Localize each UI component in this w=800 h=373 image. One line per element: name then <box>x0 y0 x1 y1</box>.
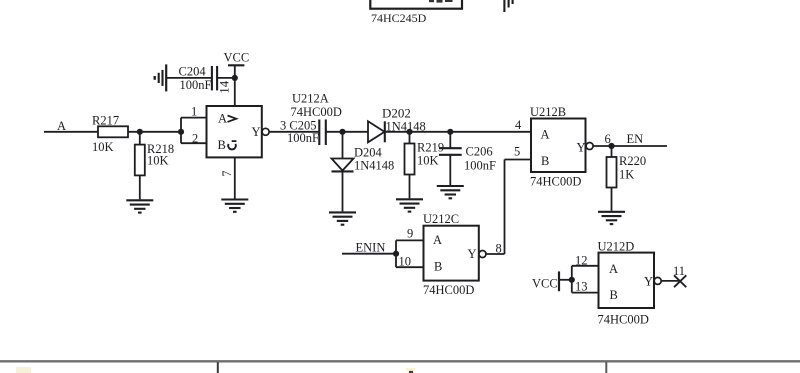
svg-text:100nF: 100nF <box>464 159 496 173</box>
svg-text:7: 7 <box>220 171 234 177</box>
svg-text:1K: 1K <box>619 168 634 182</box>
svg-text:R220: R220 <box>619 154 646 168</box>
svg-text:C206: C206 <box>466 145 493 159</box>
svg-text:10: 10 <box>399 255 412 269</box>
svg-text:12: 12 <box>575 254 588 268</box>
svg-text:B: B <box>434 260 442 274</box>
svg-text:2: 2 <box>192 132 198 146</box>
svg-text:Y: Y <box>577 141 586 155</box>
svg-text:A: A <box>218 112 227 126</box>
svg-text:EN: EN <box>627 132 644 146</box>
svg-text:D202: D202 <box>382 106 411 121</box>
svg-text:6: 6 <box>605 132 611 146</box>
svg-text:U212C: U212C <box>423 212 459 226</box>
svg-text:VCC: VCC <box>224 51 250 65</box>
svg-text:B: B <box>541 154 549 168</box>
svg-text:74HC00D: 74HC00D <box>598 313 649 327</box>
svg-text:14: 14 <box>216 80 231 94</box>
svg-text:B: B <box>218 138 226 152</box>
svg-text:Y: Y <box>252 125 261 139</box>
svg-text:R217: R217 <box>92 114 119 128</box>
svg-text:Y: Y <box>644 275 653 289</box>
svg-text:100nF: 100nF <box>180 78 212 92</box>
svg-text:U212D: U212D <box>598 240 635 254</box>
svg-text:Y: Y <box>468 247 477 261</box>
svg-text:100nF: 100nF <box>287 131 319 145</box>
svg-text:ENIN: ENIN <box>356 241 386 255</box>
svg-text:5: 5 <box>514 145 520 159</box>
svg-text:1: 1 <box>191 105 197 119</box>
svg-text:10K: 10K <box>147 154 169 168</box>
svg-text:U212A: U212A <box>292 92 329 106</box>
svg-text:VCC: VCC <box>532 277 558 291</box>
svg-text:74HC00D: 74HC00D <box>423 283 474 297</box>
svg-text:10K: 10K <box>417 154 439 168</box>
svg-text:74HC245D: 74HC245D <box>371 11 427 25</box>
svg-text:U212B: U212B <box>530 105 566 119</box>
svg-text:9: 9 <box>407 227 413 241</box>
svg-text:8: 8 <box>496 242 502 256</box>
svg-text:74HC00D: 74HC00D <box>530 175 581 189</box>
svg-text:13: 13 <box>575 280 588 294</box>
svg-text:D204: D204 <box>354 146 383 160</box>
svg-text:1N4148: 1N4148 <box>354 159 394 173</box>
svg-text:4: 4 <box>515 118 522 132</box>
svg-text:C204: C204 <box>179 65 207 79</box>
svg-text:10K: 10K <box>92 140 114 154</box>
svg-text:74HC00D: 74HC00D <box>291 105 342 119</box>
svg-text:A: A <box>609 262 618 276</box>
svg-text:A: A <box>433 233 442 247</box>
svg-text:B: B <box>610 288 618 302</box>
svg-text:A: A <box>57 119 66 133</box>
svg-text:A: A <box>541 128 550 142</box>
